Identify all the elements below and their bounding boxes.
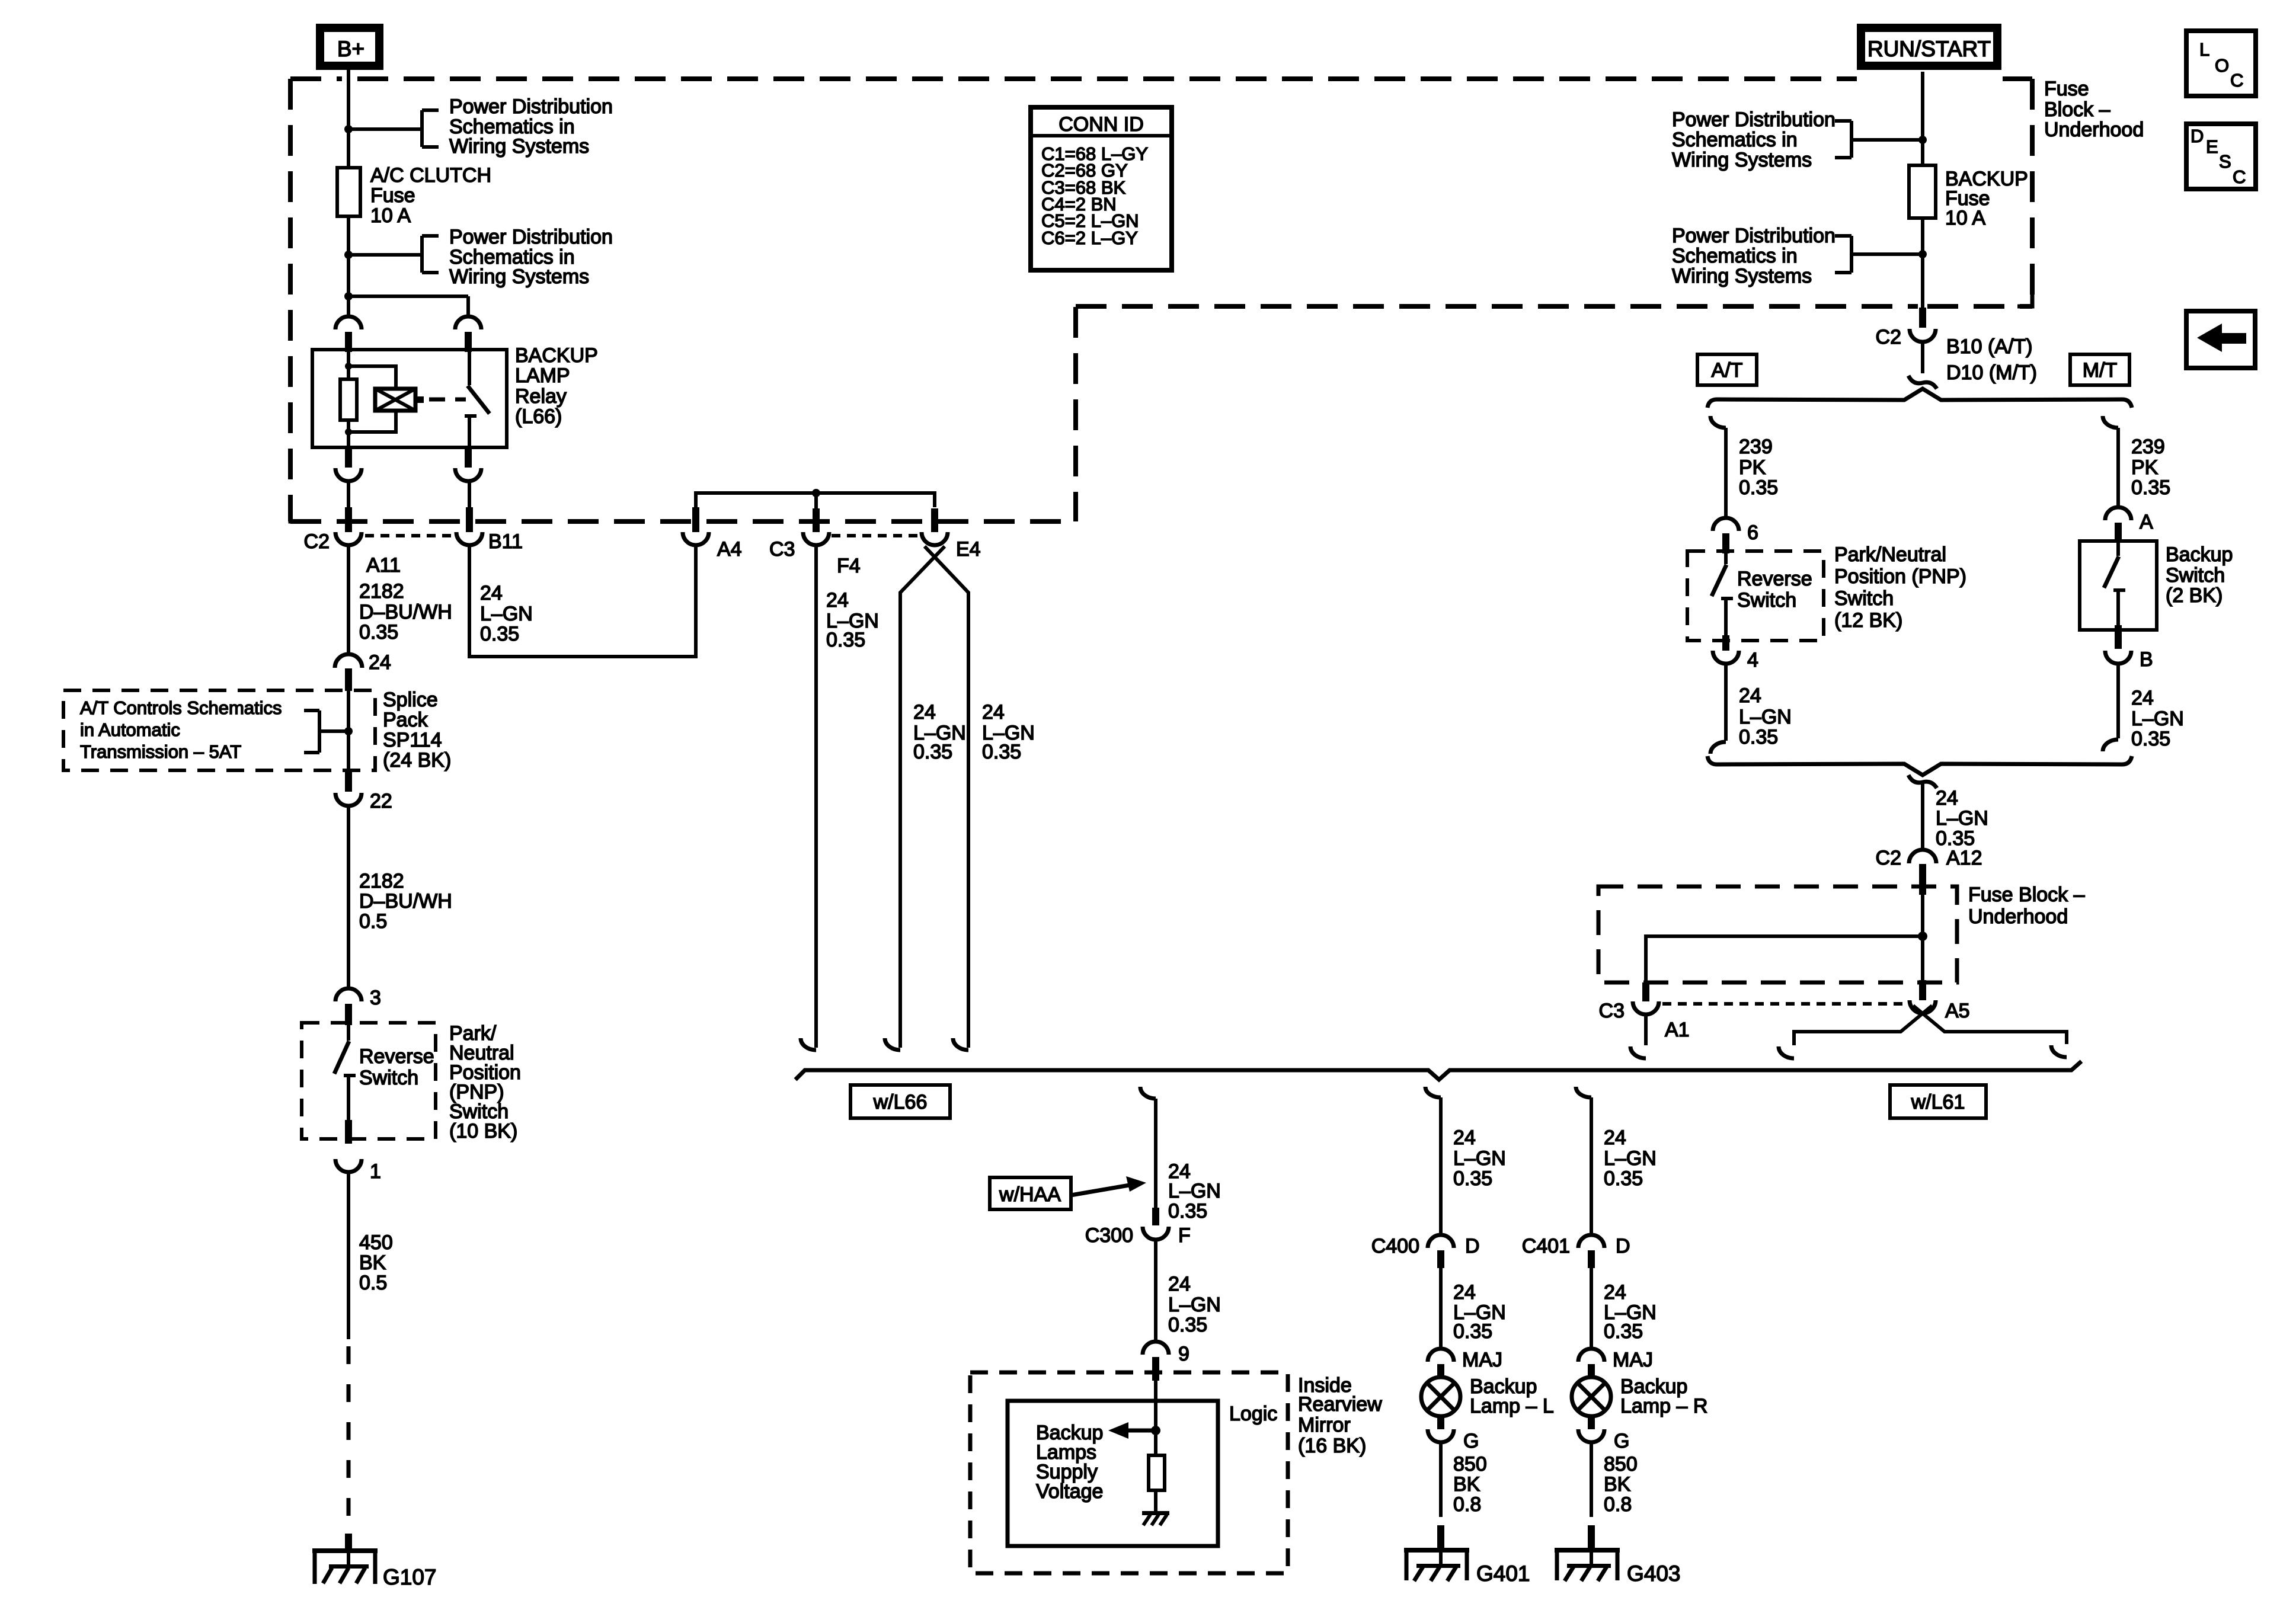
- svg-text:Rearview: Rearview: [1298, 1393, 1382, 1416]
- split bracket A/T M/T: [1707, 389, 2132, 408]
- svg-text:C401: C401: [1522, 1235, 1570, 1257]
- connector terminal 4 PNP: [1713, 651, 1739, 664]
- svg-text:Block –: Block –: [2044, 98, 2110, 121]
- svg-text:24: 24: [369, 651, 391, 674]
- pin stub relay switch supply: [465, 332, 472, 352]
- wire 239 PK A/T: [1724, 428, 1728, 518]
- wire B11 output jumper to A4: [469, 545, 696, 657]
- svg-text:in Automatic: in Automatic: [80, 719, 180, 740]
- connector terminal 1 PNP: [335, 1159, 362, 1172]
- pin stub PNP 3: [345, 1004, 352, 1025]
- svg-text:Wiring Systems: Wiring Systems: [449, 135, 589, 158]
- svg-text:Wiring Systems: Wiring Systems: [1672, 149, 1812, 171]
- svg-text:(L66): (L66): [515, 405, 562, 428]
- svg-text:B: B: [2140, 648, 2153, 671]
- svg-text:Splice: Splice: [383, 689, 438, 711]
- wire start hook C300 branch: [1140, 1087, 1156, 1099]
- svg-text:A/C CLUTCH: A/C CLUTCH: [370, 164, 491, 187]
- svg-text:A: A: [2140, 511, 2153, 533]
- connector terminal A5: [1910, 1000, 1936, 1013]
- label Park/Neutral Position (PNP) Switch (10 BK): [449, 1022, 521, 1142]
- junction internal tie at F4: [812, 489, 820, 497]
- svg-text:9: 9: [1178, 1343, 1189, 1365]
- pin stub lamp L ground: [1437, 1415, 1444, 1429]
- svg-text:C3: C3: [769, 538, 795, 561]
- reference box w/L61: [1890, 1085, 1986, 1118]
- svg-text:24: 24: [1604, 1281, 1626, 1304]
- svg-text:CONN ID: CONN ID: [1059, 113, 1144, 136]
- svg-text:(24 BK): (24 BK): [383, 749, 451, 772]
- svg-text:(2 BK): (2 BK): [2166, 584, 2223, 607]
- svg-text:A/T: A/T: [1712, 359, 1743, 382]
- dashed box A/T Controls Schematics reference: [63, 690, 375, 770]
- pin stub relay coil output: [345, 447, 352, 468]
- pin stub E4: [931, 508, 938, 532]
- svg-text:Relay: Relay: [515, 385, 567, 408]
- svg-text:C3: C3: [1599, 1000, 1625, 1022]
- wire C401 branch down: [1590, 1097, 1593, 1235]
- arrow backup lamps supply voltage: [1108, 1422, 1156, 1439]
- svg-text:Logic: Logic: [1229, 1403, 1277, 1425]
- label Park/Neutral Position (PNP) Switch (12 BK): [1834, 543, 1966, 632]
- svg-text:G107: G107: [383, 1565, 437, 1589]
- wire relay switch output down: [468, 481, 471, 507]
- svg-text:(16 BK): (16 BK): [1298, 1435, 1366, 1457]
- svg-text:Switch: Switch: [2166, 564, 2225, 587]
- reference box LOC: [2186, 31, 2256, 96]
- wire end hook A5 left at bus: [1779, 1046, 1794, 1058]
- svg-text:E4: E4: [956, 538, 981, 561]
- svg-text:C: C: [2230, 70, 2243, 91]
- svg-text:G403: G403: [1627, 1561, 1681, 1586]
- svg-text:L–GN: L–GN: [1453, 1147, 1506, 1170]
- svg-text:0.35: 0.35: [480, 623, 519, 645]
- svg-text:MAJ: MAJ: [1613, 1349, 1653, 1371]
- svg-text:0.35: 0.35: [1168, 1200, 1207, 1222]
- pin stub ground G401: [1437, 1525, 1444, 1550]
- svg-text:w/L61: w/L61: [1911, 1091, 1965, 1113]
- pin stub C2 A11: [345, 507, 352, 532]
- label 24 L-GN 0.35 (above C401): [1604, 1126, 1657, 1190]
- junction relay feed split: [344, 292, 353, 300]
- svg-text:Schematics in: Schematics in: [1672, 129, 1798, 151]
- svg-text:A4: A4: [717, 538, 742, 561]
- connector ID table CONN ID: [1031, 107, 1172, 270]
- label 24 L-GN 0.35 (A/T out): [1739, 684, 1792, 748]
- svg-text:Park/Neutral: Park/Neutral: [1834, 543, 1946, 566]
- wire E4 split left branch: [900, 546, 945, 1048]
- ground G107: [312, 1548, 378, 1584]
- label Reverse Switch (A/T): [1737, 568, 1812, 612]
- wire merge to C2 A12: [1921, 783, 1924, 850]
- connector terminal B11: [456, 532, 482, 545]
- wire C2 output to split: [1921, 342, 1924, 373]
- junction RUN/START to power distribution (upper): [1918, 136, 1927, 144]
- switch S backup switch (2 BK) body: [2080, 541, 2157, 630]
- svg-text:0.8: 0.8: [1604, 1493, 1632, 1516]
- label 24 L-GN 0.35 (to A12): [1936, 787, 1988, 850]
- pin stub A5: [1919, 980, 1926, 1000]
- resistor mirror internal: [1149, 1455, 1165, 1490]
- reference box M/T: [2070, 354, 2129, 385]
- wire 24 L-GN from backup switch: [2116, 664, 2120, 738]
- pin stub C2 B10/D10: [1919, 308, 1926, 328]
- svg-text:Wiring Systems: Wiring Systems: [449, 265, 589, 288]
- svg-text:(10 BK): (10 BK): [449, 1120, 517, 1142]
- resistor relay suppression: [340, 379, 357, 420]
- node B+ power terminal box: [320, 28, 379, 66]
- label Reverse Switch (left): [359, 1045, 434, 1089]
- svg-text:0.35: 0.35: [1739, 726, 1778, 748]
- svg-text:A5: A5: [1945, 1000, 1970, 1022]
- junction relay coil top: [345, 363, 352, 370]
- wire A5 split right branch: [1913, 1006, 2067, 1044]
- pin stub ground G107: [345, 1534, 352, 1553]
- svg-text:4: 4: [1747, 649, 1758, 671]
- svg-text:0.35: 0.35: [1453, 1167, 1492, 1190]
- connector terminal 24 splice pack: [335, 654, 362, 668]
- mechanical link relay actuator (dashed): [429, 398, 466, 402]
- svg-text:D: D: [2191, 126, 2204, 146]
- svg-text:C400: C400: [1371, 1235, 1419, 1257]
- wire fuse block internal tie A4-F4-E4: [696, 493, 935, 508]
- connector body line C3-A5 (short dash): [1662, 1002, 1905, 1006]
- wire start hook C400 branch: [1425, 1087, 1441, 1097]
- svg-text:24: 24: [1168, 1273, 1191, 1295]
- wire relay coil output down: [347, 481, 350, 507]
- junction at B+ feed to power distribution (lower): [344, 251, 353, 259]
- connector C400 terminal D: [1428, 1235, 1454, 1248]
- svg-text:0.35: 0.35: [982, 741, 1021, 763]
- svg-text:C: C: [2233, 167, 2246, 187]
- bracket reference power distribution (lower right): [1835, 236, 1923, 273]
- connector C2 terminal A11: [335, 532, 362, 545]
- wire mirror internal supply: [1154, 1381, 1157, 1455]
- wire end hook F4 at bus: [801, 1038, 816, 1050]
- connector terminal E4: [922, 532, 948, 545]
- bracket reference power distribution (lower left): [348, 236, 439, 273]
- svg-text:L–GN: L–GN: [1739, 706, 1792, 728]
- label 2182 D-BU/WH 0.35: [359, 580, 452, 644]
- wire C401 to lamp: [1590, 1268, 1593, 1349]
- svg-text:Backup: Backup: [2166, 543, 2233, 566]
- reference box w/L66: [850, 1085, 950, 1118]
- svg-text:24: 24: [1604, 1126, 1626, 1149]
- junction splice SP114: [344, 727, 353, 735]
- label 24 L-GN 0.35 (below C401): [1604, 1281, 1657, 1343]
- svg-text:Switch: Switch: [359, 1067, 418, 1089]
- svg-text:0.35: 0.35: [1604, 1167, 1643, 1190]
- connector terminal MAJ (right lamp): [1578, 1349, 1604, 1362]
- svg-text:0.5: 0.5: [359, 1272, 387, 1294]
- svg-text:A1: A1: [1665, 1019, 1690, 1041]
- fuse A/C CLUTCH 10 A: [337, 168, 360, 216]
- connector terminal MAJ (left lamp): [1428, 1349, 1454, 1362]
- svg-text:SP114: SP114: [383, 729, 442, 751]
- svg-text:24: 24: [2131, 687, 2154, 709]
- svg-text:Lamp – L: Lamp – L: [1470, 1395, 1554, 1417]
- wire RUN/START feed: [1921, 72, 1924, 308]
- connector terminal 9 mirror: [1143, 1342, 1169, 1355]
- svg-text:10 A: 10 A: [1945, 207, 1985, 229]
- svg-text:D–BU/WH: D–BU/WH: [359, 890, 452, 913]
- svg-text:0.35: 0.35: [1168, 1314, 1207, 1336]
- wire C3 A1 down to bus: [1644, 1014, 1648, 1045]
- label 850 BK 0.8 (right): [1604, 1453, 1638, 1516]
- reference box DESC: [2186, 124, 2256, 189]
- ground G401: [1404, 1548, 1469, 1581]
- pin stub relay coil supply: [345, 332, 352, 352]
- svg-text:24: 24: [1739, 684, 1761, 707]
- label 24 L-GN 0.35 (below C400): [1453, 1281, 1506, 1343]
- label 24 L-GN 0.35 (below C300): [1168, 1273, 1221, 1336]
- svg-text:0.35: 0.35: [913, 741, 952, 763]
- svg-text:PK: PK: [1739, 456, 1766, 479]
- svg-text:w/HAA: w/HAA: [999, 1183, 1061, 1206]
- svg-text:G: G: [1463, 1430, 1479, 1452]
- connector cavity relay switch pin (top right): [455, 316, 481, 329]
- svg-text:Switch: Switch: [1737, 589, 1796, 612]
- connector cavity relay switch output: [455, 468, 481, 481]
- svg-text:24: 24: [913, 701, 936, 724]
- svg-text:BACKUP: BACKUP: [515, 344, 598, 367]
- connector C2 terminal A12: [1909, 850, 1936, 863]
- svg-text:w/L66: w/L66: [873, 1091, 928, 1113]
- switch backup blade: [2104, 543, 2125, 630]
- label 24 L-GN 0.35 (E4 right): [982, 701, 1035, 763]
- reference box back arrow: [2186, 311, 2255, 368]
- svg-text:L–GN: L–GN: [1168, 1294, 1221, 1316]
- svg-text:Fuse: Fuse: [2044, 78, 2089, 100]
- svg-text:0.35: 0.35: [1739, 476, 1778, 499]
- wire C300 branch down: [1154, 1099, 1157, 1212]
- reference box w/HAA: [990, 1177, 1071, 1209]
- label 239 PK 0.35 (A/T): [1739, 436, 1778, 499]
- wire resistor to internal ground: [1154, 1490, 1157, 1511]
- fuse block underhood dashed boundary (right edge): [2030, 79, 2035, 306]
- wire end hook C3 A1 at bus: [1630, 1046, 1646, 1058]
- switch S reverse switch in PNP (dashed box): [302, 1023, 436, 1139]
- label Fuse Block - Underhood (top right): [2044, 78, 2144, 141]
- svg-text:Schematics in: Schematics in: [1672, 245, 1798, 267]
- svg-text:BK: BK: [359, 1251, 386, 1274]
- svg-text:D: D: [1616, 1235, 1630, 1257]
- wire C300 to mirror: [1154, 1240, 1157, 1342]
- label 239 PK 0.35 (M/T): [2131, 436, 2170, 499]
- svg-text:Underhood: Underhood: [1968, 905, 2068, 928]
- switch S reverse switch in PNP A/T (dashed box): [1687, 551, 1824, 641]
- dashed box U inside rearview mirror: [970, 1372, 1288, 1573]
- svg-text:24: 24: [826, 589, 849, 612]
- relay K BACKUP LAMP Relay (L66) body: [312, 350, 507, 447]
- connector body line C2-B11 (short dash): [365, 534, 453, 537]
- svg-text:Pack: Pack: [383, 709, 428, 731]
- svg-text:D10 (M/T): D10 (M/T): [1946, 361, 2037, 384]
- label Backup Lamps Supply Voltage: [1036, 1422, 1103, 1503]
- fuse block underhood dashed boundary (left edge): [288, 79, 293, 521]
- label 850 BK 0.8 (left): [1453, 1453, 1487, 1516]
- svg-text:22: 22: [370, 790, 392, 812]
- label Backup Lamp - R: [1620, 1375, 1707, 1417]
- dashed box fuse block underhood (bottom right): [1598, 886, 1957, 982]
- svg-text:C2: C2: [1876, 326, 1901, 348]
- svg-text:24: 24: [1936, 787, 1958, 809]
- svg-text:Power Distribution: Power Distribution: [449, 95, 613, 118]
- label Backup Lamp - L: [1470, 1375, 1554, 1417]
- svg-text:24: 24: [1453, 1281, 1476, 1304]
- pin stub PNP 6: [1722, 533, 1729, 553]
- junction relay coil bottom: [345, 428, 352, 436]
- pin stub splice pack 24: [345, 668, 352, 691]
- wire relay feed to switch pin: [348, 296, 468, 316]
- wire end hook A5 right at bus: [2051, 1045, 2067, 1057]
- svg-text:G401: G401: [1476, 1561, 1530, 1586]
- connector terminal 6 PNP A/T: [1713, 518, 1739, 531]
- svg-text:B+: B+: [337, 37, 364, 61]
- svg-text:E: E: [2206, 136, 2218, 157]
- pin stub PNP 1: [345, 1120, 352, 1144]
- fuse block dashed corner (bottom left): [290, 508, 305, 521]
- svg-text:24: 24: [1453, 1126, 1476, 1149]
- label 450 BK 0.5: [359, 1231, 393, 1294]
- svg-text:BK: BK: [1604, 1473, 1631, 1496]
- pin stub lamp L: [1437, 1364, 1444, 1379]
- svg-text:Fuse Block –: Fuse Block –: [1968, 884, 2085, 906]
- connector terminal A4: [683, 532, 709, 545]
- label Power Distribution Schematics in Wiring Systems (upper left): [449, 95, 613, 158]
- label 24 L-GN 0.35 (M/T out): [2131, 687, 2184, 750]
- fuse block underhood dashed boundary (bottom-left edge): [290, 519, 1076, 524]
- label Splice Pack SP114 (24 BK): [383, 689, 451, 772]
- reference box A/T: [1697, 354, 1757, 385]
- pin stub mirror 9: [1152, 1357, 1159, 1381]
- svg-text:Power Distribution: Power Distribution: [449, 226, 613, 248]
- pin stub A4: [692, 507, 699, 532]
- connector terminal 3 PNP: [335, 988, 362, 1001]
- wire ground run (dashed): [347, 1346, 351, 1536]
- wire relay coil loop: [348, 366, 396, 432]
- splice bus bar (backup lamp feed): [795, 1061, 2081, 1080]
- wire start hook C401 branch: [1576, 1087, 1591, 1097]
- svg-text:2182: 2182: [359, 870, 404, 892]
- connector C401 terminal D: [1578, 1235, 1604, 1248]
- wire 2182 circuit to PNP switch: [347, 806, 350, 988]
- svg-text:10 A: 10 A: [370, 204, 411, 227]
- wire 239 PK M/T: [2116, 428, 2120, 507]
- label BACKUP Fuse 10 A: [1945, 168, 2028, 229]
- svg-text:24: 24: [982, 701, 1005, 724]
- connector cavity relay coil pin (top left): [335, 316, 362, 329]
- svg-text:Mirror: Mirror: [1298, 1414, 1351, 1436]
- ground mirror internal: [1142, 1511, 1169, 1525]
- label BACKUP LAMP Relay (L66): [515, 344, 598, 428]
- arrow w/HAA callout: [1071, 1176, 1146, 1195]
- svg-text:Reverse: Reverse: [359, 1045, 434, 1068]
- pin stub backup switch B: [2115, 625, 2122, 649]
- svg-text:0.35: 0.35: [359, 621, 398, 644]
- svg-text:450: 450: [359, 1231, 393, 1254]
- wire B+ vertical feed: [347, 70, 350, 316]
- label Power Distribution Schematics in Wiring Systems (lower right): [1672, 225, 1835, 287]
- pin stub B11: [466, 507, 473, 532]
- svg-text:Reverse: Reverse: [1737, 568, 1812, 590]
- svg-text:1: 1: [370, 1160, 381, 1183]
- wire end hook E4 right at bus: [953, 1038, 968, 1050]
- connector terminal A backup switch: [2105, 507, 2131, 520]
- svg-text:C300: C300: [1085, 1224, 1133, 1247]
- svg-text:850: 850: [1604, 1453, 1638, 1475]
- svg-text:0.35: 0.35: [2131, 476, 2170, 499]
- svg-text:B10 (A/T): B10 (A/T): [1946, 335, 2032, 358]
- pin stub backup switch A: [2115, 523, 2122, 543]
- fuse BACKUP 10 A: [1909, 165, 1936, 218]
- wire fuse block internal A12 to A5 and C3/A1: [1646, 895, 1923, 999]
- svg-text:L–GN: L–GN: [2131, 708, 2184, 730]
- wire end hook M/T at merge: [2103, 740, 2118, 751]
- pin stub PNP 4: [1722, 635, 1729, 651]
- pin stub relay switch output: [465, 447, 472, 468]
- svg-text:0.5: 0.5: [359, 910, 387, 933]
- bracket reference A/T controls to splice: [304, 710, 348, 753]
- label 24 L-GN 0.35 (above C300): [1168, 1160, 1221, 1222]
- pin stub lamp R ground: [1588, 1415, 1595, 1429]
- switch PNP blade: [334, 1024, 356, 1139]
- connector terminal G (right lamp): [1578, 1429, 1604, 1442]
- svg-text:0.35: 0.35: [2131, 728, 2170, 750]
- wire 450 BK ground wire: [347, 1172, 350, 1339]
- label 24 L-GN 0.35 (F4 wire): [826, 589, 879, 651]
- svg-text:Switch: Switch: [1834, 587, 1894, 610]
- logic block inside mirror: [1008, 1401, 1218, 1546]
- svg-text:BK: BK: [1453, 1473, 1480, 1496]
- fuse block dashed corner (bottom right): [2017, 292, 2032, 306]
- junction at B+ feed to power distribution (upper): [344, 125, 353, 133]
- svg-text:L–GN: L–GN: [1936, 807, 1988, 830]
- svg-text:850: 850: [1453, 1453, 1487, 1475]
- svg-text:Voltage: Voltage: [1036, 1480, 1103, 1503]
- wire A5 split left branch: [1794, 1006, 1932, 1045]
- svg-text:0.35: 0.35: [826, 629, 865, 651]
- label 24 L-GN 0.35 (above C400): [1453, 1126, 1506, 1190]
- connector C3 terminal F4: [803, 532, 829, 545]
- pin stub splice pack 22: [345, 770, 352, 792]
- switch relay blade: [468, 386, 490, 414]
- wire relay internal coil leg: [347, 350, 350, 447]
- connector terminal B backup switch: [2105, 651, 2131, 664]
- pin stub C300 F: [1152, 1208, 1159, 1225]
- junction mirror logic node: [1151, 1426, 1160, 1435]
- connector C2 terminal B10(A/T) D10(M/T): [1910, 329, 1936, 342]
- svg-text:Fuse: Fuse: [370, 184, 415, 207]
- svg-text:M/T: M/T: [2083, 359, 2118, 382]
- switch PNP A/T blade: [1712, 553, 1733, 641]
- svg-text:Underhood: Underhood: [2044, 119, 2144, 141]
- label 2182 D-BU/WH 0.5: [359, 870, 452, 933]
- connector C300 terminal F: [1143, 1227, 1169, 1240]
- junction RUN/START to power distribution (lower): [1918, 250, 1927, 258]
- pin stub lamp R: [1588, 1364, 1595, 1379]
- bracket reference power distribution (upper left): [348, 110, 439, 147]
- svg-text:0.8: 0.8: [1453, 1493, 1481, 1516]
- connector C3 terminal A1: [1633, 1001, 1659, 1014]
- svg-text:0.35: 0.35: [1453, 1320, 1492, 1343]
- switch relay contact lower: [465, 416, 477, 447]
- connector body line F4-E4 (short dash): [832, 534, 919, 537]
- svg-text:C6=2 L–GY: C6=2 L–GY: [1041, 228, 1138, 248]
- svg-text:A/T Controls Schematics: A/T Controls Schematics: [80, 697, 282, 718]
- svg-text:F: F: [1178, 1224, 1191, 1247]
- fuse block underhood dashed boundary (top edge): [290, 76, 2032, 81]
